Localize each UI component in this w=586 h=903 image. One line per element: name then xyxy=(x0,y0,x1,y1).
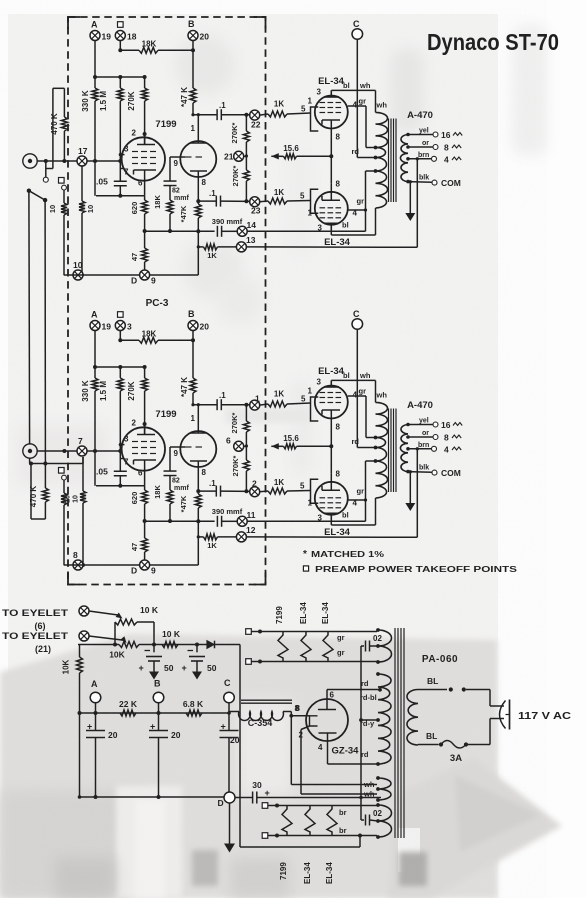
wire plate to cap (ch2) xyxy=(193,404,217,406)
ground secondary (ch1) xyxy=(409,182,411,213)
EL-34 lower grid bracket (ch1) xyxy=(311,189,319,213)
preamp takeoff square (ch2) xyxy=(118,312,124,318)
wire screen upper gr (ch1) xyxy=(348,105,366,107)
eyelet to 6 xyxy=(79,606,89,616)
heater EL-34a upper xyxy=(301,632,311,662)
wire D line xyxy=(257,797,381,799)
supply rail xyxy=(80,712,230,714)
wire cap to eyelet lower (ch2) xyxy=(221,490,250,492)
wire switch to ch2 jack xyxy=(28,191,31,445)
tap brn 4 ohm (ch1) xyxy=(408,158,431,160)
tap brn 4 ohm (ch2) xyxy=(408,448,431,450)
bias rail xyxy=(78,644,119,646)
7199 pin7 stub (ch1) xyxy=(120,168,124,170)
wire jack bottom row (ch2) xyxy=(29,458,31,463)
wire eyelet13 out (ch1) xyxy=(246,246,417,248)
winding 6.3V lower xyxy=(378,805,392,837)
preamp takeoff square lower (ch2) xyxy=(59,468,65,474)
wire plate to cap (ch1) xyxy=(193,114,217,116)
EL-34 upper cathode (ch2) xyxy=(322,409,340,411)
node D terminal xyxy=(224,792,235,803)
EL-34 lower cathode (ch1) xyxy=(322,199,340,201)
power switch xyxy=(418,689,447,691)
wire to plug bottom xyxy=(489,719,491,745)
PA-060 primary winding xyxy=(407,690,418,746)
A-470 primary winding (ch1) xyxy=(376,112,388,147)
heater rails upper xyxy=(246,629,252,635)
wire feedback (ch1) xyxy=(416,159,418,248)
winding HV xyxy=(378,674,391,764)
wire input (ch1) xyxy=(37,160,120,162)
wire input (ch2) xyxy=(37,450,120,452)
7199 pentode cathode (ch2) xyxy=(134,459,157,461)
takeoff terminal lower (ch2) xyxy=(62,475,67,480)
EL-34 upper grids (ch1) xyxy=(320,102,326,104)
wire 18 down (ch2) xyxy=(119,331,121,341)
wire cathode row (ch1) xyxy=(96,195,145,197)
input jack (ch1) xyxy=(23,154,37,168)
wire diode out xyxy=(215,644,241,646)
wire screen upper gr (ch2) xyxy=(348,395,366,397)
preamp takeoff square (ch1) xyxy=(118,22,124,28)
tube 7199 envelope pentode (ch1) xyxy=(122,137,165,180)
wire cap to eyelet (ch2) xyxy=(222,404,250,406)
eyelet 11 (ch2) xyxy=(237,516,247,526)
wire plate upper bl (ch2) xyxy=(330,380,332,385)
eyelet 22 (ch1) xyxy=(250,110,260,120)
tube EL-34 upper envelope (ch1) xyxy=(315,96,348,129)
wire cathode to cap (ch1) xyxy=(198,200,216,202)
wire fb rail (ch1) xyxy=(145,230,215,232)
heater 7199 lower xyxy=(282,806,292,836)
capacitor .02 upper xyxy=(361,645,364,647)
tap yel 16 ohm (ch2) xyxy=(408,424,433,426)
wire switch to ch2 row xyxy=(44,200,46,463)
tap or 8 ohm (ch1) xyxy=(408,146,433,148)
EL-34 upper grid bracket (ch2) xyxy=(311,397,319,421)
7199 pin7 stub (ch2) xyxy=(120,458,124,460)
takeoff terminal lower (ch1) xyxy=(62,185,67,190)
7199 pentode cathode (ch1) xyxy=(134,169,157,171)
input jack (ch2) xyxy=(23,444,37,458)
wire fb rail (ch2) xyxy=(145,520,215,522)
7199 triode grid (ch2) xyxy=(185,446,192,448)
capacitor .02 lower xyxy=(361,819,364,821)
tube 7199 envelope pentode (ch2) xyxy=(122,427,165,470)
wire cathodes (ch1) xyxy=(330,137,332,183)
7199 triode cathode (ch2) xyxy=(190,460,207,462)
7199 triode grid (ch1) xyxy=(185,156,192,158)
eyelet 6 (ch2) xyxy=(234,441,244,451)
wire A down (ch2) xyxy=(94,331,96,379)
7199 triode plate (ch1) xyxy=(197,115,199,143)
tube EL-34 lower envelope (ch1) xyxy=(315,192,348,225)
choke core xyxy=(241,699,292,701)
7199 pentode plate (ch2) xyxy=(144,424,146,435)
wire 18 down (ch1) xyxy=(119,41,121,51)
wire cathode to cap (ch2) xyxy=(198,490,216,492)
takeoff terminal (ch1) xyxy=(43,177,48,182)
tube EL-34 upper envelope (ch2) xyxy=(315,386,348,419)
ground D xyxy=(229,803,231,844)
wire eyelet11 out (ch2) xyxy=(247,520,365,522)
7199 triode cathode (ch1) xyxy=(190,170,207,172)
capacitor 50 first xyxy=(153,645,155,653)
choke C-354 winding xyxy=(229,711,239,713)
wire wiper 1 xyxy=(89,611,118,615)
7199 pin3 stub (ch2) xyxy=(120,444,124,446)
diode bias xyxy=(207,641,214,649)
A-470 core (ch1) xyxy=(388,119,390,203)
wire cap to eyelet lower (ch1) xyxy=(221,200,250,202)
wire jack stub (ch1) xyxy=(44,159,48,163)
fuse 3A xyxy=(418,744,439,746)
EL-34 lower cathode (ch2) xyxy=(322,489,340,491)
eyelet 2 (ch2) xyxy=(250,487,260,497)
A-470 core (ch2) xyxy=(388,409,390,493)
wire A down (ch1) xyxy=(94,41,96,89)
EL-34 lower plate (ch2) xyxy=(324,512,339,514)
A-470 secondary winding (ch2) xyxy=(400,425,408,472)
wire 02 vertical xyxy=(360,646,362,820)
capacitor 82mmf (ch2) xyxy=(169,447,171,471)
wire B down (ch1) xyxy=(192,41,194,89)
eyelet 13 (ch1) xyxy=(236,242,246,252)
heater EL-34a lower xyxy=(305,806,315,836)
wire bottom row (ch1) xyxy=(64,274,199,276)
PC-3 board dashed outline xyxy=(68,17,266,585)
wire grid rail (ch1) xyxy=(95,76,145,78)
input select switch xyxy=(27,189,31,193)
A-470 secondary winding (ch1) xyxy=(400,135,408,182)
eyelet 21 (ch1) xyxy=(234,151,244,161)
AC plug xyxy=(500,701,506,729)
wire to grid lower (ch1) xyxy=(260,200,268,203)
wire HV center tap xyxy=(361,719,378,721)
wire grid rail (ch2) xyxy=(95,366,145,368)
wire fb down (ch1) xyxy=(197,231,199,275)
svg-text:117 V AC: 117 V AC xyxy=(518,711,571,722)
wire eyelet12 out (ch2) xyxy=(246,536,417,538)
heater 7199 upper xyxy=(278,632,288,662)
wire fb to eyelet (ch2) xyxy=(222,520,237,522)
wire plate lower bl (ch2) xyxy=(330,515,332,525)
ground secondary (ch2) xyxy=(409,472,411,503)
capacitor 82mmf (ch1) xyxy=(169,157,171,181)
wire bottom row (ch2) xyxy=(64,564,199,566)
wire C down (ch1) xyxy=(356,39,358,157)
node D eyelet 9 (ch2) xyxy=(140,560,150,570)
tube GZ-34 envelope xyxy=(306,699,348,741)
wire 270K chain (ch2) xyxy=(245,405,247,421)
EL-34 upper plate (ch2) xyxy=(324,386,339,388)
wire C down (ch2) xyxy=(356,329,358,447)
wire bias feed xyxy=(239,645,241,848)
eyelet 23 (ch1) xyxy=(250,197,260,207)
7199 triode plate (ch2) xyxy=(197,405,199,433)
wire screen lower gr (ch1) xyxy=(348,209,366,211)
eyelet 14 (ch1) xyxy=(237,226,247,236)
7199 pin3 stub (ch1) xyxy=(120,154,124,156)
eyelet to 21 xyxy=(79,631,89,641)
eyelet 3 (ch2) xyxy=(115,321,125,331)
tube EL-34 lower envelope (ch2) xyxy=(315,482,348,515)
PA-060 core xyxy=(394,628,396,838)
wire plate upper bl (ch1) xyxy=(330,90,332,95)
EL-34 lower grid bracket (ch2) xyxy=(311,479,319,503)
wire to grid upper (ch2) xyxy=(260,404,268,405)
wire feedback (ch2) xyxy=(416,449,418,538)
EL-34 upper grid bracket (ch1) xyxy=(311,107,319,131)
wire to grid lower (ch2) xyxy=(260,490,268,493)
node D eyelet 9 (ch1) xyxy=(140,270,150,280)
GZ-34 plate 2 xyxy=(319,732,337,734)
winding 6.3V upper xyxy=(378,630,392,662)
capacitor 50 second xyxy=(196,645,198,653)
wire cathode row (ch2) xyxy=(96,485,145,487)
capacitor 30 xyxy=(235,797,252,799)
tube 7199 envelope triode (ch2) xyxy=(180,431,216,467)
wire screen lower gr (ch2) xyxy=(348,499,366,501)
wire fb to eyelet (ch1) xyxy=(222,230,237,232)
wire to grid upper (ch1) xyxy=(260,114,268,115)
heater rails lower xyxy=(262,803,268,809)
wire pin8 xyxy=(291,715,309,717)
EL-34 upper plate (ch1) xyxy=(324,96,339,98)
tap yel 16 ohm (ch1) xyxy=(408,134,433,136)
EL-34 upper grids (ch2) xyxy=(320,392,326,394)
EL-34 lower grids (ch2) xyxy=(320,507,326,509)
wire eyelet14 out (ch1) xyxy=(247,230,365,232)
wire cathodes (ch2) xyxy=(330,427,332,473)
wire wiper 2 xyxy=(89,636,122,640)
EL-34 lower plate (ch1) xyxy=(324,222,339,224)
A-470 primary winding (ch2) xyxy=(376,402,388,437)
bottom rail xyxy=(80,796,225,798)
wire B down (ch2) xyxy=(192,331,194,379)
takeoff note xyxy=(303,566,308,571)
wire fb down (ch2) xyxy=(197,521,199,565)
heater EL-34b lower xyxy=(327,806,337,836)
EL-34 upper cathode (ch1) xyxy=(322,119,340,121)
eyelet 18 (ch1) xyxy=(115,31,125,41)
tap blk COM (ch2) xyxy=(408,471,432,474)
GZ-34 plate 1 xyxy=(318,709,336,711)
eyelet 12 (ch2) xyxy=(236,532,246,542)
7199 pentode plate (ch1) xyxy=(144,134,146,145)
GZ-34 filament xyxy=(310,716,318,726)
tap or 8 ohm (ch2) xyxy=(408,436,433,438)
7199 pentode grids (ch1) xyxy=(132,151,138,153)
winding 5V wh xyxy=(378,778,391,800)
heater EL-34b upper xyxy=(323,632,333,662)
wire pin2 xyxy=(301,726,310,730)
tap blk COM (ch1) xyxy=(408,181,432,184)
7199 pentode grids (ch2) xyxy=(132,441,138,443)
wire 270K chain (ch1) xyxy=(245,115,247,131)
EL-34 lower grids (ch1) xyxy=(320,217,326,219)
wire to plug top xyxy=(489,690,491,707)
eyelet 1 (ch2) xyxy=(250,400,260,410)
wire cap to eyelet (ch1) xyxy=(222,114,250,116)
tube 7199 envelope triode (ch1) xyxy=(180,141,216,177)
preamp takeoff square lower (ch1) xyxy=(59,178,65,184)
wire plate lower bl (ch1) xyxy=(330,225,332,235)
